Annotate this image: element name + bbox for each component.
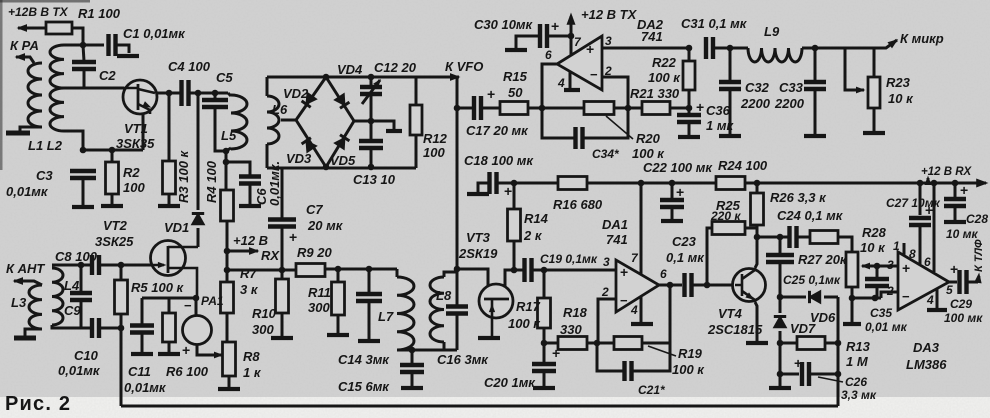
capacitor C12 variable <box>360 87 382 94</box>
wire node A to C2 <box>83 45 84 61</box>
svg-text:4: 4 <box>630 303 638 317</box>
node C12 top <box>368 74 375 81</box>
wire C31 to L9 <box>714 47 748 50</box>
diamond edge bottom-right <box>326 121 354 167</box>
inductor L5 <box>231 95 247 149</box>
wire AGC column <box>120 328 123 406</box>
wire DA3 pin1 stub <box>903 243 906 255</box>
diode VD2 <box>306 93 316 104</box>
svg-text:3SК25: 3SК25 <box>95 234 134 249</box>
svg-text:5: 5 <box>946 283 953 297</box>
wire C33 stem <box>814 48 817 81</box>
node pin2 fb <box>625 105 632 112</box>
svg-text:+: + <box>182 342 190 358</box>
svg-text:L3: L3 <box>11 295 27 310</box>
wire C13 to box bottom <box>370 149 373 168</box>
wire PA1 bottom to R8 wiper <box>197 344 209 355</box>
wire detector right column <box>837 297 840 406</box>
capacitor C28 <box>944 199 966 206</box>
wire IF bottom line <box>397 349 457 352</box>
leader line C26 <box>818 377 843 382</box>
transistor VT1 3SK35 <box>123 80 157 114</box>
capacitor C33 <box>804 82 826 89</box>
wire C20 to ground <box>543 372 546 386</box>
svg-text:+: + <box>950 261 958 277</box>
wire C22 to ground <box>671 208 674 219</box>
potentiometer R8 <box>223 342 236 376</box>
svg-text:С3: С3 <box>36 168 53 183</box>
node PA1 top <box>193 295 200 302</box>
wire diamond right corner <box>354 120 371 123</box>
svg-text:DА3: DА3 <box>913 340 940 355</box>
svg-text:0,1 мк: 0,1 мк <box>666 250 705 265</box>
wire C2 to gate line <box>83 70 86 88</box>
wire C5 bottom to tank bottom <box>215 108 226 151</box>
wire node A to C1 <box>83 44 104 47</box>
capacitor C3 <box>70 171 96 178</box>
node C6 tap <box>223 159 230 166</box>
svg-text:2 к: 2 к <box>523 228 543 243</box>
svg-text:С27 10мк: С27 10мк <box>886 196 941 210</box>
capacitor C1 <box>109 34 116 56</box>
capacitor C2 <box>72 62 96 69</box>
svg-text:VD7: VD7 <box>790 321 816 336</box>
ground under R6 <box>158 352 180 356</box>
resistor R15 <box>500 102 528 115</box>
wire C11 branch from source line <box>141 298 144 324</box>
wire R25 right lead <box>745 228 757 237</box>
diode VD1 <box>192 214 204 225</box>
diamond edge bottom-left <box>296 120 326 167</box>
ground under R8 <box>218 387 240 391</box>
resistor R18 <box>558 337 587 350</box>
inductor L9 <box>748 48 802 62</box>
capacitor C8 <box>92 255 99 275</box>
ground under R23 <box>863 131 885 135</box>
capacitor C22 <box>660 200 684 207</box>
wire C21 loop right <box>633 343 670 371</box>
wire L5 top <box>228 93 231 96</box>
wire C3 to ground <box>82 178 85 205</box>
wire R23 top <box>873 48 876 77</box>
node AGC column top <box>118 325 125 332</box>
node C32 tap <box>727 45 734 52</box>
svg-text:РА1: РА1 <box>201 294 224 308</box>
node R14 tap <box>511 180 518 187</box>
resistor R1 <box>46 22 72 34</box>
node feedback tap <box>667 282 674 289</box>
node R9 branch <box>224 267 231 274</box>
wire C8 to VT2 gate <box>100 264 153 267</box>
wire L2 bottom <box>64 131 83 150</box>
wire L8 top <box>444 272 457 277</box>
ground under C15 <box>401 386 423 390</box>
transistor VT4 2SC1815 <box>733 269 766 302</box>
wire K mikr with arrow <box>874 40 897 48</box>
capacitor C7 <box>268 220 296 227</box>
resistor R17 <box>538 298 551 328</box>
svg-text:R19: R19 <box>678 346 703 361</box>
wire C29 to K TLF <box>968 281 978 284</box>
arrow rail right end <box>977 179 987 187</box>
ground under C33 <box>804 134 826 138</box>
wire R27 to R28 <box>838 237 852 252</box>
svg-text:2: 2 <box>601 285 609 299</box>
node C13 bottom <box>368 164 375 171</box>
wire R10 bottom <box>281 313 284 336</box>
wire K ANT with left arrow <box>14 281 42 285</box>
wire R18 left <box>544 342 558 345</box>
wire C27 column <box>919 183 922 215</box>
wire C13 stem <box>370 121 373 140</box>
ground under DA1 <box>631 322 653 326</box>
wire feedback drop <box>669 285 672 343</box>
wire C16 bottom <box>456 314 459 350</box>
ground under R3 <box>158 204 180 208</box>
resistor R22 <box>683 61 695 90</box>
wire VD6 line right <box>824 296 838 299</box>
svg-text:L5: L5 <box>221 128 237 143</box>
wire R5 top <box>120 265 123 280</box>
wire R25 left lead <box>707 228 712 285</box>
capacitor C6 <box>239 177 261 184</box>
wire C36 stem <box>688 108 691 114</box>
svg-text:С35: С35 <box>870 306 892 320</box>
wire C30 to ground <box>516 36 539 48</box>
node C17 tap <box>454 105 461 112</box>
wire R18 right <box>587 342 597 345</box>
ground under VT3 <box>478 336 500 340</box>
wire C30 branch <box>549 35 571 38</box>
capacitor C15 <box>400 365 424 372</box>
wire R11 bottom <box>337 315 340 333</box>
wire L3 bottom to ground <box>25 329 42 336</box>
wire DA3 pin4 down <box>936 289 939 308</box>
svg-text:С4 100: С4 100 <box>168 59 211 74</box>
ground under C14 <box>358 339 380 343</box>
svg-text:С26: С26 <box>845 375 867 389</box>
resistor R26 <box>751 193 764 225</box>
wire R2 top <box>111 150 114 162</box>
wire R6 bottom <box>168 342 171 352</box>
diode VD4 <box>335 94 345 105</box>
svg-text:L6: L6 <box>272 102 288 117</box>
svg-text:+: + <box>552 345 560 361</box>
wire PA1 top lead <box>195 298 198 316</box>
svg-text:С28: С28 <box>966 212 988 226</box>
wire C23 to VT4 base <box>693 284 735 287</box>
ground under R28 <box>843 322 861 326</box>
wire C35 lower stem <box>876 287 879 298</box>
svg-text:4: 4 <box>557 76 565 90</box>
svg-text:С22 100 мк: С22 100 мк <box>643 160 713 175</box>
node diamond top <box>323 74 330 81</box>
svg-text:С21*: С21* <box>638 383 666 397</box>
svg-text:VТ3: VТ3 <box>466 230 491 245</box>
svg-text:−: − <box>902 289 910 304</box>
svg-text:R17: R17 <box>516 299 541 314</box>
svg-text:0,01мк: 0,01мк <box>6 184 49 199</box>
svg-text:С25 0,1мк: С25 0,1мк <box>783 273 841 287</box>
arrow +12V RX <box>227 250 258 253</box>
capacitor C13 <box>359 141 383 148</box>
wire L4 bottom line <box>52 325 91 328</box>
wire R9 line right <box>325 268 397 271</box>
wire collector line right <box>757 236 789 239</box>
wire R21 right <box>670 107 689 110</box>
capacitor C36 <box>677 115 701 122</box>
svg-text:С33: С33 <box>779 80 804 95</box>
svg-text:С34*: С34* <box>592 147 620 161</box>
svg-text:К VFO: К VFO <box>445 59 483 74</box>
ground left of C18 <box>467 192 489 196</box>
wire C25 top stem <box>779 237 782 254</box>
resistor R16 <box>558 177 587 190</box>
capacitor C5 <box>202 100 228 107</box>
svg-text:С30 10мк: С30 10мк <box>474 17 534 32</box>
node A junction <box>80 42 87 49</box>
node C30 tap <box>568 33 575 40</box>
wire R19 left <box>597 342 614 345</box>
svg-text:С18 100 мк: С18 100 мк <box>464 153 534 168</box>
node R5 tap <box>118 262 125 269</box>
diamond edge top-left <box>296 77 326 120</box>
capacitor C11 <box>130 326 154 333</box>
wire DA1 pin2 lead <box>598 299 616 343</box>
svg-text:6: 6 <box>545 48 552 62</box>
svg-text:0,01мк: 0,01мк <box>124 380 167 395</box>
wire R20 to node <box>614 107 642 110</box>
resistor R11 <box>332 282 345 315</box>
wire VD6 line left <box>780 296 806 299</box>
svg-text:R8: R8 <box>243 349 260 364</box>
arrow +12V RX <box>927 178 930 183</box>
ground under VT4 <box>746 341 768 345</box>
capacitor C32 <box>719 82 741 89</box>
wire C18 ground stem <box>478 183 488 192</box>
wire K PA with left arrow <box>16 57 34 63</box>
svg-text:С17 20 мк: С17 20 мк <box>466 123 529 138</box>
node R22 top <box>686 45 693 52</box>
svg-text:С11: С11 <box>128 364 151 379</box>
node C26 left <box>777 371 784 378</box>
resistor R4 <box>221 190 234 221</box>
svg-text:8: 8 <box>909 247 916 261</box>
ground under L1 <box>6 131 30 136</box>
node diamond bottom <box>323 164 330 171</box>
wire DA2 pin4 down <box>569 72 572 88</box>
mixer box right edge lower <box>415 135 418 168</box>
wire C26 left lead <box>780 373 799 376</box>
wire C26 right lead <box>810 373 838 376</box>
wire DA3 pin6 drop <box>933 183 936 272</box>
capacitor C30 <box>540 24 547 48</box>
ground under DA3 <box>927 308 947 312</box>
svg-text:2200: 2200 <box>740 96 771 111</box>
svg-text:С31 0,1 мк: С31 0,1 мк <box>681 16 748 31</box>
wire DA3 output <box>949 281 957 284</box>
wire R28 to C35 node <box>852 297 881 300</box>
node DA1 pin7 tap <box>638 180 645 187</box>
wiper arrow into R28 <box>862 265 877 268</box>
svg-text:VD5: VD5 <box>330 153 356 168</box>
svg-text:R13: R13 <box>846 339 871 354</box>
svg-text:10 мк: 10 мк <box>946 227 979 241</box>
svg-text:R12: R12 <box>423 131 448 146</box>
wire C7 to R9 line <box>281 227 284 270</box>
svg-text:+12 В ТХ: +12 В ТХ <box>581 7 638 22</box>
op-amp DA1 741 <box>616 260 659 312</box>
wiper arrow into R8 <box>209 354 222 357</box>
wire R17 bottom stem <box>543 328 546 343</box>
wire L2 top to node A <box>64 44 83 47</box>
wire R23 bottom <box>873 108 876 131</box>
resistor R12 <box>410 105 422 135</box>
ground under C6 <box>239 204 261 208</box>
wire L8 bottom <box>443 342 446 350</box>
node +12V RX tap <box>224 248 231 255</box>
svg-text:3: 3 <box>603 255 610 269</box>
svg-text:+: + <box>487 86 495 102</box>
wire C4 to tank <box>190 92 228 95</box>
svg-text:2SК19: 2SК19 <box>458 246 498 261</box>
wire C25 bottom stem <box>779 263 782 297</box>
wire R9 line left <box>227 269 296 272</box>
svg-text:−: − <box>184 298 192 313</box>
svg-text:100: 100 <box>123 180 145 195</box>
op-amp DA3 LM386 <box>898 252 949 310</box>
svg-text:К ТЛФ: К ТЛФ <box>973 239 985 272</box>
wire wiper to DA3 pin3 <box>877 265 897 268</box>
wire C6 branch <box>226 162 250 175</box>
svg-text:VD2: VD2 <box>283 86 309 101</box>
capacitor C35 <box>865 279 889 286</box>
svg-text:+: + <box>586 41 594 57</box>
svg-text:R23: R23 <box>886 75 911 90</box>
wire C19 to DA1 pin3 <box>533 269 616 272</box>
mixer box top edge <box>267 76 416 79</box>
capacitor C10 <box>92 318 99 338</box>
wire VT4 emitter down <box>755 302 757 341</box>
svg-text:R27 20к: R27 20к <box>798 252 848 267</box>
op-amp DA2 741 <box>557 36 602 90</box>
resistor R21 <box>642 102 670 115</box>
svg-text:4: 4 <box>926 293 934 307</box>
wire +12V TX with left arrow <box>18 27 46 30</box>
capacitor C26 <box>802 362 809 386</box>
svg-text:R22: R22 <box>652 55 677 70</box>
svg-text:С10: С10 <box>74 348 99 363</box>
wire DA2 pin3 lead <box>602 47 689 50</box>
svg-text:0,01мк: 0,01мк <box>58 363 101 378</box>
wire R28 bottom stem <box>851 287 854 322</box>
wire K VFO with right arrow <box>416 76 459 79</box>
wire C6 to ground <box>249 184 252 204</box>
resistor R2 <box>106 162 119 194</box>
wire DA2 pin7 up <box>570 16 573 55</box>
wire L9 to R23 <box>802 47 874 50</box>
wire DA1 output <box>659 284 682 287</box>
svg-text:R6 100: R6 100 <box>166 364 209 379</box>
transistor VT3 2SK19 <box>479 284 513 318</box>
resistor R10 <box>276 279 289 313</box>
wire C17 line left <box>458 107 473 110</box>
resistor R25 <box>712 222 745 235</box>
wire VT2 source line left <box>142 297 196 300</box>
svg-text:R16 680: R16 680 <box>553 197 603 212</box>
wire R13 left lead <box>780 342 797 345</box>
wire C28 stem <box>954 183 957 198</box>
node R14 bottom <box>511 267 518 274</box>
svg-text:К микр: К микр <box>900 31 944 46</box>
svg-text:100 к: 100 к <box>672 362 705 377</box>
svg-text:R21 330: R21 330 <box>630 86 680 101</box>
wire C32 stem <box>729 48 732 81</box>
capacitor C21 <box>625 361 632 381</box>
ground under R10 <box>271 336 293 340</box>
mixer box left edge lower <box>266 144 269 168</box>
wire rail R16 to R24 <box>587 182 716 185</box>
resistor R13 <box>797 337 825 350</box>
wire L1 bottom to ground <box>20 127 42 131</box>
svg-text:LМ386: LМ386 <box>906 357 947 372</box>
svg-text:К РА: К РА <box>10 38 39 53</box>
AGC bottom rail <box>121 405 838 408</box>
mixer box right edge upper <box>415 77 418 105</box>
svg-text:L4: L4 <box>64 278 80 293</box>
wire tank bottom down <box>225 151 228 190</box>
scan edge artifacts <box>0 0 90 3</box>
wire R22 bottom stem <box>688 90 691 108</box>
wire VD1 to VT2 drain <box>197 228 200 247</box>
node C28 tap <box>952 180 959 187</box>
wire C20 stem <box>543 343 546 363</box>
svg-text:R15: R15 <box>503 69 528 84</box>
node R22 bottom <box>686 105 693 112</box>
svg-text:R9 20: R9 20 <box>297 245 332 260</box>
svg-text:100 к: 100 к <box>508 316 541 331</box>
svg-text:С19 0,1мк: С19 0,1мк <box>540 252 598 266</box>
svg-text:R5 100 к: R5 100 к <box>131 280 185 295</box>
wire rail C18 to R16 <box>498 182 558 185</box>
svg-text:10 к: 10 к <box>860 240 886 255</box>
node R3 tap on drain line <box>166 90 173 97</box>
node detector left top <box>777 294 784 301</box>
capacitor C18 <box>490 172 497 194</box>
wire C17 to R15 <box>482 107 500 110</box>
svg-text:R26 3,3 к: R26 3,3 к <box>770 190 827 205</box>
resistor R19 <box>614 337 642 350</box>
wire source line <box>83 149 143 152</box>
wire C32 to ground <box>729 90 732 134</box>
svg-text:2: 2 <box>886 284 894 298</box>
node R13 right <box>835 340 842 347</box>
svg-text:3: 3 <box>605 34 612 48</box>
svg-text:2SС1815: 2SС1815 <box>707 322 763 337</box>
svg-text:0,01 мк: 0,01 мк <box>865 320 908 334</box>
svg-text:R28: R28 <box>862 225 887 240</box>
svg-text:DА1: DА1 <box>602 217 628 232</box>
svg-text:300: 300 <box>308 300 330 315</box>
wire R3 top <box>168 93 171 161</box>
diode VD3 <box>306 141 316 152</box>
wire R7 to R8 <box>226 313 229 342</box>
ground under C22 <box>661 219 683 223</box>
resistor R14 <box>508 209 521 241</box>
wire VT3 gate lead <box>457 269 488 297</box>
svg-text:R1 100: R1 100 <box>78 6 121 21</box>
svg-text:6: 6 <box>660 267 667 281</box>
